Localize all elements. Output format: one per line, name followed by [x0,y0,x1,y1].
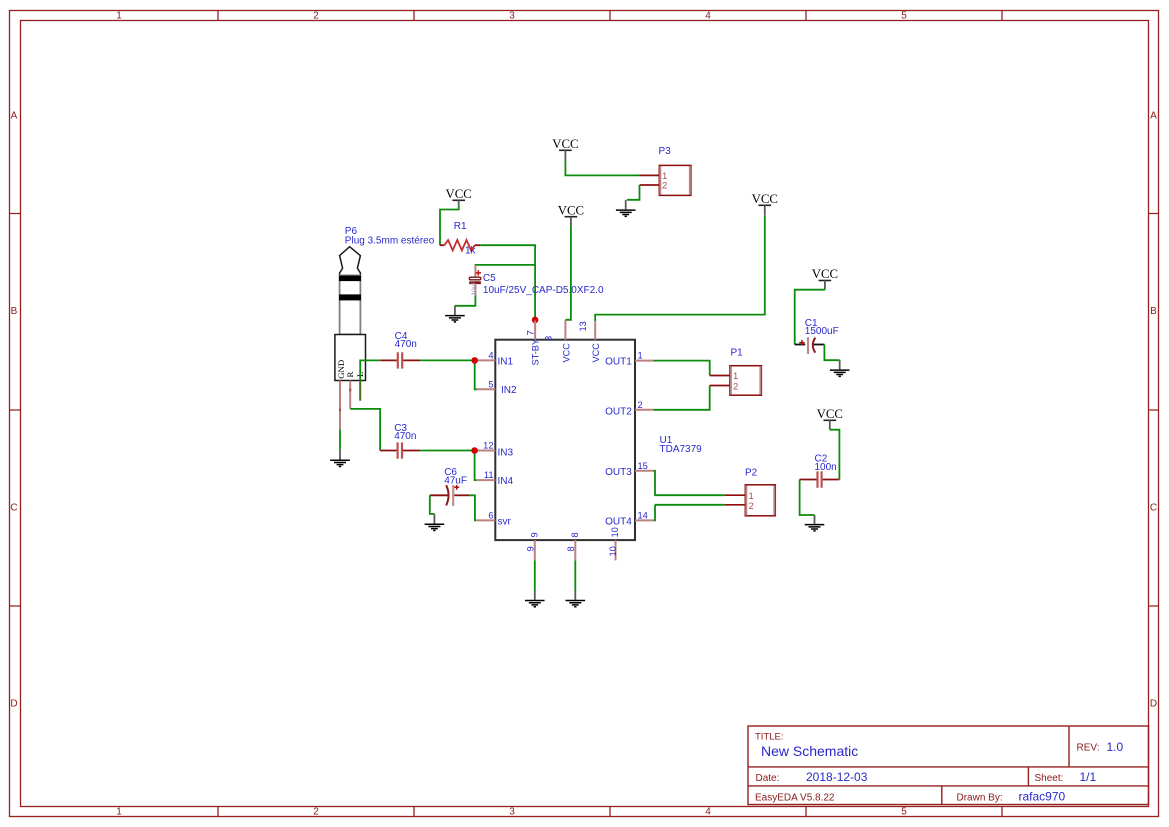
wire pin 8 to ground [574,560,576,590]
net VCC symbol above C1 [812,267,838,290]
svg-text:ST-BY: ST-BY [531,339,541,366]
wire L pin to C4 [360,360,380,381]
ground under C5 [445,316,465,322]
svg-text:1500uF: 1500uF [805,326,839,337]
svg-text:2: 2 [749,501,754,512]
pin 12 stub IN3 [476,450,495,452]
connector P2 pin 2 stub [725,504,746,506]
svg-text:5: 5 [901,11,907,22]
capacitor C1 straight plate [807,337,809,354]
svg-text:C: C [10,502,17,513]
svg-text:OUT3: OUT3 [605,467,632,478]
frame column ticks bottom [218,807,1002,817]
resistor R1 [440,244,445,246]
ground under P3 [616,210,636,216]
svg-text:IN2: IN2 [501,385,517,396]
svg-text:4: 4 [705,11,711,22]
svg-text:OUT1: OUT1 [605,356,632,367]
pin 7 ST-BY stub [534,321,536,340]
connector P3 box [659,165,691,195]
pin 13 stub [594,321,596,340]
svg-text:1.0: 1.0 [1107,740,1124,754]
svg-text:VCC: VCC [817,407,843,421]
svg-text:8: 8 [570,532,580,537]
svg-text:6: 6 [488,510,493,520]
svg-text:10: 10 [610,527,620,537]
svg-text:15: 15 [638,461,648,471]
wire OUT4 to P2 [654,505,725,521]
junction dot at IN1 [471,357,478,364]
capacitor C1 plus sign [799,340,804,345]
svg-text:11: 11 [484,470,494,480]
plug P6 tip [340,247,361,276]
svg-text:1k: 1k [465,246,477,257]
wire C5 to ground [455,295,476,306]
ground stem under C5 [454,306,456,315]
plug P6 band 2 [339,294,361,300]
junction dot at ST-BY [532,317,539,324]
capacitor C1 left lead [795,344,806,346]
svg-text:svr: svr [498,516,512,527]
capacitor C6 right lead [454,494,469,496]
ground stem pin 9 [534,591,536,600]
ground stem under C6 [433,514,435,524]
svg-text:2: 2 [313,807,319,818]
pin 8 stub [574,540,576,560]
svg-text:1: 1 [116,11,122,22]
svg-text:VCC: VCC [752,192,778,206]
svg-text:Date:: Date: [756,773,780,784]
plug P6 L pin with wire overlap [359,381,361,401]
svg-text:Plug 3.5mm estéreo: Plug 3.5mm estéreo [345,236,435,247]
connector P1 pin 1 stub [710,375,730,377]
plug P6 R pin [349,381,351,409]
svg-text:1: 1 [638,351,643,361]
svg-text:2: 2 [733,382,738,393]
wire VCC to C2 [830,430,840,480]
svg-text:R: R [345,372,355,378]
ground stem under jack [339,450,341,459]
capacitor C3 right lead [403,450,420,452]
svg-text:P3: P3 [659,146,672,157]
capacitor C5 top plate [469,277,481,280]
pin 5 stub IN2 [477,388,496,390]
svg-text:P1: P1 [731,348,744,359]
wire C3 to IN3 [420,450,474,452]
svg-text:R1: R1 [454,221,467,232]
frame row letters right [1150,111,1157,710]
svg-text:5: 5 [901,807,907,818]
connector P1 box [730,366,762,396]
ground stem pin 8 [574,591,576,600]
net VCC symbol right top [752,192,778,216]
svg-text:100n: 100n [815,462,837,473]
svg-text:4: 4 [705,807,711,818]
plug P6 body [340,275,361,334]
wire branch to C5 [475,264,535,266]
svg-text:9: 9 [525,546,535,551]
ground under jack [330,460,350,466]
plug P6 connector box [335,335,366,381]
svg-text:P2: P2 [745,468,758,479]
wire VCC to P3 pin1 [565,161,639,175]
frame column numbers bottom [116,807,907,818]
svg-text:10uF/25V_CAP-D5.0XF2.0: 10uF/25V_CAP-D5.0XF2.0 [483,285,604,296]
capacitor C5 top pin [474,265,476,277]
wire VCC to R1 [440,205,459,245]
wire R1 to ST-BY pin [480,245,535,320]
wire OUT1 to P1 [654,361,710,376]
title block box [748,726,1149,805]
pin 11 stub IN4 [477,479,496,481]
ground stem under P3 [625,200,627,210]
svg-text:IN3: IN3 [498,447,514,458]
svg-text:3: 3 [509,807,515,818]
svg-text:13: 13 [578,321,588,331]
svg-text:TITLE:: TITLE: [755,732,784,743]
svg-text:VCC: VCC [552,137,578,151]
wire branch IN3 to IN4 [475,451,477,481]
svg-text:A: A [11,111,18,122]
svg-text:12: 12 [483,441,493,451]
pin 10 stub [615,540,617,560]
net VCC symbol above C2 [817,407,843,430]
capacitor C2 right lead [823,479,840,481]
wire C2 to ground [800,480,815,516]
pin 6 stub svr [476,519,495,521]
frame row ticks right [1149,214,1159,607]
wire VCC to C1 [795,290,825,345]
capacitor C2 plates [818,471,822,487]
svg-text:VCC: VCC [812,267,838,281]
svg-text:IN1: IN1 [498,356,514,367]
svg-text:Sheet:: Sheet: [1035,773,1064,784]
capacitor C4 left lead [380,359,397,361]
connector P2 box [745,485,775,516]
connector P2 pin 1 stub [725,494,746,496]
net VCC symbol above R1 [446,187,472,205]
net VCC symbol above P3 [552,137,578,161]
svg-text:C5: C5 [483,273,496,284]
capacitor C6 curved plate [446,485,448,505]
junction dot at IN3 [471,447,478,454]
connector P3 pin 1 stub [640,174,660,176]
svg-text:OUT4: OUT4 [605,516,632,527]
svg-text:Drawn By:: Drawn By: [957,793,1003,804]
resistor R1 right lead [475,244,480,246]
svg-text:VCC: VCC [561,343,571,363]
frame row letters left [10,111,17,710]
svg-text:3: 3 [544,336,554,341]
wire pin 9 to ground [534,560,536,590]
wire VCC to pin 3 [565,226,571,320]
connector P3 pin 2 stub [640,184,660,186]
wire GND pin to ground [339,429,341,450]
svg-text:4: 4 [488,351,493,361]
ground pin 8 [566,601,586,607]
capacitor C1 right lead [814,344,825,346]
wire C6 left to ground [430,495,435,514]
capacitor C5 plus sign [476,270,481,275]
svg-text:C: C [1150,502,1157,513]
svg-text:2: 2 [662,181,667,192]
capacitor C5 bottom pin [474,284,476,295]
wire C6 to svr [469,495,476,520]
svg-text:8: 8 [566,546,576,551]
pin 3 stub [564,320,566,340]
frame row ticks left [10,214,21,607]
svg-text:470n: 470n [395,339,417,350]
svg-text:3: 3 [509,11,515,22]
svg-text:OUT2: OUT2 [605,407,632,418]
capacitor C5 bottom plate [469,281,481,284]
ground pin 9 [525,601,545,607]
svg-text:rafac970: rafac970 [1019,790,1066,804]
svg-text:5: 5 [488,379,493,389]
svg-text:D: D [10,699,17,710]
svg-text:New Schematic: New Schematic [761,743,858,759]
svg-text:B: B [11,306,18,317]
wire OUT3 to P2 [654,471,725,495]
wire P3 pin2 to ground [627,185,640,200]
pin 4 stub IN1 [476,359,495,361]
svg-text:VCC: VCC [558,203,584,217]
connector P3 pin numbers [662,171,667,192]
ground under C1 [830,370,850,376]
svg-text:9: 9 [529,532,539,537]
ground stem under C1 [839,360,841,369]
capacitor C6 left lead [430,494,449,496]
pin 14 stub OUT4 [635,519,654,521]
svg-text:47uF: 47uF [444,476,467,487]
capacitor C6 straight plate [452,485,454,506]
wire branch IN1 to IN2 [475,360,477,389]
capacitor C3 left lead [380,450,397,452]
plug P6 GND pin [339,381,341,430]
pin 15 stub OUT3 [635,470,654,472]
capacitor C6 plus sign [454,485,459,490]
ground under C2 [805,525,825,531]
net VCC symbol above pin 3 [558,203,584,225]
svg-text:14: 14 [638,510,648,520]
wire OUT2 to P1 [654,386,710,410]
pin 2 stub OUT2 [635,409,654,411]
frame column numbers top [116,11,907,22]
svg-text:10: 10 [608,546,618,556]
svg-text:B: B [1150,306,1157,317]
capacitor C1 curved plate [813,338,816,353]
ground under C6 [425,524,445,530]
svg-text:VCC: VCC [446,187,472,201]
plug P6 band 1 [339,276,361,282]
pin 1 stub OUT1 [635,360,654,362]
pin 9 stub [534,540,536,560]
svg-text:7: 7 [525,330,535,335]
connector P2 pin numbers [749,491,754,512]
svg-text:A: A [1150,111,1157,122]
svg-text:IN4: IN4 [498,476,514,487]
frame column ticks top [218,11,1002,21]
capacitor C4 plates [398,352,402,368]
wire C1 to ground [824,345,839,361]
capacitor C2 left lead [800,479,817,481]
IC U1 box [495,340,635,540]
svg-text:2018-12-03: 2018-12-03 [806,770,868,784]
wire C4 to IN1 [420,359,475,361]
svg-text:2: 2 [313,11,319,22]
ground stem under C2 [814,515,816,524]
wire VCC to pin 13 [595,216,765,322]
svg-text:470n: 470n [394,431,416,442]
svg-text:EasyEDA V5.8.22: EasyEDA V5.8.22 [755,793,835,804]
wire R pin to C3 [350,409,380,451]
svg-text:2: 2 [638,400,643,410]
connector P1 pin 2 stub [710,385,730,387]
svg-text:D: D [1150,699,1157,710]
svg-text:REV:: REV: [1077,743,1100,754]
connector P1 pin numbers [733,371,738,392]
capacitor C4 right lead [403,359,420,361]
svg-text:TDA7379: TDA7379 [660,444,703,455]
svg-text:1: 1 [116,807,122,818]
capacitor C3 plates [398,442,402,458]
svg-text:VCC: VCC [591,343,601,363]
svg-text:1/1: 1/1 [1080,770,1097,784]
